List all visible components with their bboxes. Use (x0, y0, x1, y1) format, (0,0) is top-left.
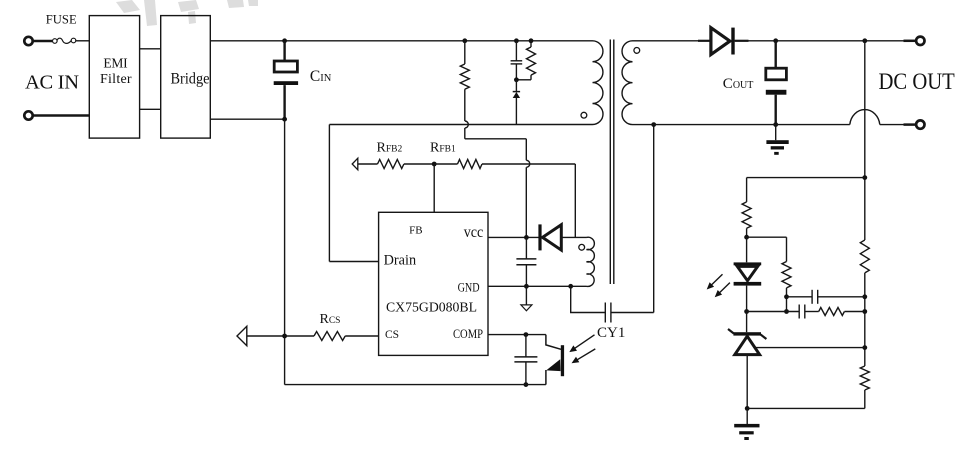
wire TL431 ref (755, 347, 865, 349)
svg-text:Drain: Drain (384, 253, 417, 269)
svg-text:EMI: EMI (103, 56, 128, 71)
EMI filter block (89, 16, 139, 139)
capacitor COUT (775, 41, 777, 68)
svg-text:COMP: COMP (453, 327, 483, 341)
node primary polarity dot (581, 112, 587, 118)
ground secondary under COUT (775, 125, 777, 141)
wire output sense branch (864, 41, 866, 240)
resistor lower divider (860, 366, 869, 390)
wire secondary bottom (633, 124, 850, 126)
resistor RCS (314, 332, 345, 341)
resistor LED parallel (747, 236, 787, 238)
wire COMP (488, 334, 546, 336)
diode snubber clamp (515, 80, 517, 92)
wire vcc (488, 236, 539, 238)
transformer T1 core (609, 40, 611, 285)
op-amp U1 CX75GD080BL (379, 212, 488, 355)
resistor LED series (746, 178, 748, 202)
terminal AC bottom (24, 111, 32, 119)
wire hop over RFB1 line (526, 160, 530, 167)
bridge block (161, 16, 211, 139)
photon arrows out of LED (712, 274, 723, 285)
wire EMI-bridge bottom (140, 108, 161, 110)
svg-text:AC IN: AC IN (25, 72, 79, 94)
node aux polarity dot (579, 244, 585, 250)
node arrow CS return (237, 326, 247, 345)
ground TL431 (746, 408, 748, 424)
wire feedback top (747, 177, 865, 179)
capacitor CIN (282, 38, 287, 43)
wire primary return column (284, 119, 286, 384)
svg-text:FUSE: FUSE (46, 12, 77, 26)
capacitor vcc (525, 237, 527, 258)
LED opto emitter (746, 237, 748, 262)
resistor snubber R (529, 38, 534, 43)
svg-text:CS: CS (385, 329, 399, 341)
transistor opto phototransistor (546, 335, 561, 350)
diode vcc rectifier (538, 224, 541, 250)
wire hop over output branch (850, 110, 880, 125)
transformer primary winding (593, 41, 604, 125)
wire secondary top (633, 40, 711, 42)
resistor RFB1 (458, 160, 483, 169)
node arrow RFB2 return (352, 158, 358, 170)
capacitor CY1 (571, 286, 606, 312)
svg-text:FB: FB (409, 224, 422, 236)
svg-text:CY1: CY1 (597, 325, 625, 341)
resistor startup R (bus to vcc) (462, 38, 467, 43)
terminal AC top (24, 37, 32, 45)
ground arrow primary (525, 286, 527, 304)
wire FB pin (433, 164, 435, 212)
resistor upper divider (860, 240, 869, 273)
svg-text:Bridge: Bridge (171, 71, 210, 88)
capacitor compensation row1 (787, 296, 813, 298)
svg-text:vcc: vcc (464, 224, 484, 241)
wire GND (488, 285, 587, 287)
node FB divider (432, 162, 437, 167)
wire drain line (329, 124, 592, 126)
wire drain loop (328, 125, 330, 262)
svg-text:DC OUT: DC OUT (879, 69, 955, 94)
wire hop over drain line (465, 121, 469, 128)
photon arrows into opto (572, 335, 595, 350)
terminal DC bottom (904, 123, 917, 126)
svg-text:Filter: Filter (100, 72, 132, 87)
wire feedback bottom (747, 407, 865, 409)
wire top rail (210, 40, 592, 42)
shunt regulator TL431 (746, 312, 748, 333)
wire bottom loop (285, 384, 546, 386)
terminal DC top (904, 40, 917, 43)
fuse FUSE (53, 39, 58, 44)
watermark (116, 0, 258, 26)
wire bridge bottom (210, 118, 284, 120)
svg-text:CX75GD080BL: CX75GD080BL (386, 301, 477, 316)
capacitor snubber C (514, 38, 519, 43)
resistor RFB2 (378, 160, 404, 169)
capacitor COMP (525, 335, 527, 357)
capacitor + resistor compensation row2 (747, 311, 800, 313)
wire EMI-bridge top (140, 48, 161, 50)
node secondary polarity dot (634, 48, 640, 54)
transformer aux winding (587, 237, 595, 286)
transformer secondary winding (622, 41, 632, 125)
diode output rectifier (698, 40, 711, 42)
svg-text:GND: GND (458, 281, 480, 295)
